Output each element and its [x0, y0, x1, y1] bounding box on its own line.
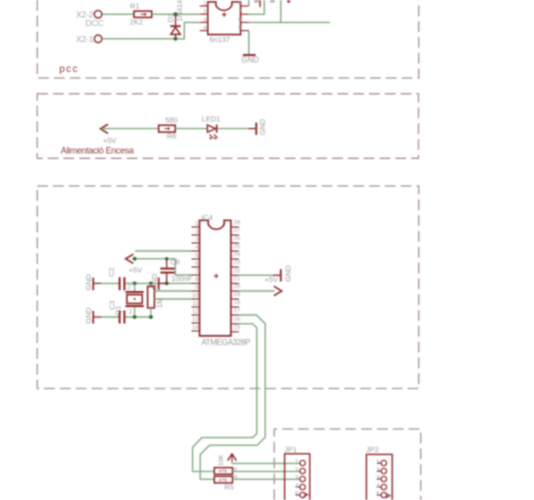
- svg-text:470: 470: [219, 469, 228, 474]
- node junction bottom of D2: [174, 37, 178, 41]
- ground symbol at C6: [150, 274, 167, 290]
- wire pin16 down long: [193, 324, 257, 472]
- supply +5V arrow left of IC4: [126, 254, 142, 274]
- svg-text:6: 6: [195, 261, 198, 267]
- svg-text:4: 4: [195, 245, 199, 251]
- svg-text:28: 28: [234, 220, 240, 226]
- resistor R 1M: [148, 283, 164, 317]
- svg-text:470: 470: [219, 477, 228, 482]
- capacitor C6 100nF: [160, 258, 192, 284]
- svg-text:5: 5: [295, 491, 299, 498]
- capacitor C3: [108, 301, 126, 324]
- supply +5V arrow left: [100, 124, 116, 145]
- svg-text:9: 9: [195, 285, 198, 291]
- svg-text:GND: GND: [84, 307, 93, 323]
- svg-text:pcc: pcc: [59, 64, 79, 75]
- svg-text:16: 16: [234, 317, 240, 323]
- wire GND net row to pin8: [125, 282, 191, 284]
- svg-text:1: 1: [295, 459, 299, 466]
- supply +5V arrow up: [218, 454, 236, 466]
- wire R5 to JP1 pin3: [233, 478, 301, 480]
- wire X2-2 to R1: [103, 13, 134, 15]
- IC4 pin numbers left: [192, 221, 199, 331]
- svg-text:4: 4: [376, 483, 380, 490]
- svg-text:580: 580: [165, 116, 177, 125]
- wire +5V to VCC pin7: [135, 259, 192, 275]
- svg-text:K: K: [233, 466, 239, 470]
- wire C3 row to 1M bottom: [125, 316, 150, 318]
- svg-text:3: 3: [295, 475, 299, 482]
- svg-text:R1: R1: [130, 2, 139, 11]
- cropped plus remnant: [287, 0, 291, 3]
- wire crystal pin1 lead: [134, 307, 136, 317]
- svg-text:18: 18: [234, 300, 240, 306]
- svg-text:ATMEGA328P: ATMEGA328P: [201, 338, 251, 347]
- svg-text:6n137: 6n137: [210, 35, 231, 44]
- node crystal top: [133, 282, 137, 286]
- ground symbol left (upper): [84, 274, 101, 290]
- 6n137 pin stubs right: [241, 6, 249, 31]
- svg-text:23: 23: [234, 260, 240, 266]
- wire pin17 down long: [200, 315, 265, 479]
- connector X2-2: [76, 10, 103, 28]
- ground symbol left (lower): [84, 307, 101, 323]
- op-amp U1 6n137 body: [208, 2, 241, 44]
- svg-text:19: 19: [234, 292, 240, 298]
- svg-text:1: 1: [129, 308, 133, 315]
- svg-text:C3: C3: [108, 301, 117, 310]
- wire pin9 short: [154, 290, 191, 292]
- svg-text:2: 2: [376, 467, 380, 474]
- svg-text:D2: D2: [166, 13, 175, 22]
- wire crystal pin2 lead: [134, 283, 136, 291]
- wire pin7 up: [249, 0, 264, 14]
- IC IC4 body: [200, 213, 252, 347]
- svg-text:R5: R5: [224, 483, 233, 492]
- wire +5V to R6: [101, 128, 159, 130]
- svg-text:21: 21: [234, 277, 240, 283]
- wire X2-1 to corner into pin3: [103, 22, 200, 38]
- svg-text:15: 15: [234, 325, 240, 331]
- frame box pcc: [37, 0, 419, 78]
- wire pin20 to +5V: [239, 290, 275, 292]
- 6n137 pin numbers: [203, 1, 207, 32]
- svg-text:LED1: LED1: [202, 115, 221, 124]
- header JP1: [284, 445, 310, 500]
- resistor R6 580: [159, 116, 178, 141]
- svg-text:7: 7: [195, 269, 198, 275]
- svg-text:5: 5: [376, 491, 380, 498]
- svg-text:20: 20: [234, 284, 240, 290]
- diode D2 1N4148: [166, 0, 184, 39]
- IC4 pin numbers right: [234, 220, 241, 331]
- svg-text:DCC: DCC: [85, 18, 103, 28]
- svg-text:Alimentació Encesa: Alimentació Encesa: [61, 146, 134, 156]
- svg-text:2: 2: [203, 9, 206, 15]
- svg-text:8: 8: [238, 1, 241, 7]
- header JP2: [366, 445, 392, 500]
- wire pin8 up: [248, 0, 250, 6]
- svg-text:3: 3: [203, 17, 206, 23]
- wire pin6 right: [249, 21, 330, 23]
- svg-text:2K2: 2K2: [130, 18, 143, 27]
- svg-text:13: 13: [192, 317, 198, 323]
- svg-text:25: 25: [234, 244, 240, 250]
- resistor R4 upper: [214, 466, 239, 474]
- resistor R1 2K2: [130, 2, 152, 27]
- svg-text:5: 5: [195, 253, 198, 259]
- svg-text:1: 1: [195, 221, 198, 227]
- svg-text:7: 7: [238, 9, 241, 15]
- wire R1 to node: [152, 13, 200, 15]
- resistor R5 lower: [214, 474, 239, 492]
- svg-text:C2: C2: [107, 267, 116, 276]
- capacitor C2: [107, 267, 126, 290]
- svg-text:3: 3: [195, 237, 198, 243]
- svg-text:R6: R6: [167, 131, 176, 140]
- svg-text:8: 8: [195, 277, 198, 283]
- node +5V junction: [133, 257, 137, 261]
- frame box JP headers: [274, 429, 421, 500]
- LED LED1: [202, 115, 221, 139]
- svg-text:JP2: JP2: [366, 445, 379, 454]
- ground right of LED1: [248, 119, 267, 135]
- svg-text:6: 6: [238, 17, 241, 23]
- svg-text:GND: GND: [84, 274, 93, 290]
- svg-text:X2-1: X2-1: [76, 34, 94, 44]
- svg-text:3: 3: [376, 475, 380, 482]
- supply +5V arrow right: [274, 286, 282, 295]
- svg-text:+5V: +5V: [103, 136, 116, 145]
- cropped text remnant left: [254, 0, 258, 3]
- cropped text remnant right: [270, 0, 274, 3]
- svg-text:K: K: [233, 474, 239, 478]
- node C6 bottom: [165, 282, 169, 286]
- svg-text:2: 2: [127, 284, 131, 291]
- frame box Alimentacio Encesa: [37, 94, 418, 159]
- cropped component remnant red stub: [259, 0, 261, 7]
- svg-text:GND: GND: [258, 119, 267, 135]
- svg-text:5: 5: [238, 26, 241, 32]
- connector X2-1: [76, 34, 102, 44]
- frame box ATMEGA: [37, 186, 419, 389]
- svg-text:IC4: IC4: [201, 213, 213, 222]
- svg-text:+5V: +5V: [129, 266, 142, 275]
- wire vertical into pin6 net: [280, 0, 282, 22]
- svg-text:C6: C6: [170, 258, 179, 267]
- ground under 6n137: [242, 54, 260, 64]
- wire LED1 to ground: [218, 128, 249, 130]
- svg-text:2: 2: [295, 467, 299, 474]
- svg-text:24: 24: [234, 252, 241, 258]
- node junction top of D2: [174, 12, 178, 16]
- svg-text:JP1: JP1: [284, 445, 297, 454]
- wire pin10 short: [154, 298, 191, 300]
- svg-text:GND: GND: [242, 55, 260, 64]
- ground right of IC4: [273, 265, 293, 281]
- svg-text:11: 11: [192, 301, 198, 307]
- svg-text:GND: GND: [284, 265, 293, 281]
- IC4 pin stubs right: [231, 227, 239, 332]
- svg-text:+5V: +5V: [265, 275, 278, 284]
- node 1M bottom: [149, 315, 153, 319]
- svg-text:22: 22: [234, 268, 240, 274]
- crystal Q1: [114, 284, 144, 315]
- svg-text:26: 26: [234, 236, 240, 242]
- svg-text:14: 14: [192, 325, 199, 331]
- svg-text:1: 1: [376, 459, 380, 466]
- IC4 pin stubs left: [192, 227, 200, 331]
- svg-text:10: 10: [192, 293, 198, 299]
- wire GND to C2: [101, 282, 119, 284]
- svg-text:10K: 10K: [218, 454, 225, 466]
- svg-text:2: 2: [195, 229, 198, 235]
- wire R6 to LED1: [175, 128, 207, 130]
- wire +5V to JP1 pin1: [232, 462, 300, 464]
- node crystal bottom: [133, 315, 137, 319]
- 6n137 pin stubs left: [200, 6, 208, 31]
- wire pin22 to ground: [239, 274, 273, 276]
- svg-text:4: 4: [295, 483, 299, 490]
- wire pin4 long left: [135, 250, 191, 252]
- svg-text:1: 1: [203, 1, 206, 7]
- svg-text:27: 27: [234, 228, 240, 234]
- wire pin5 down to ground: [248, 31, 250, 54]
- node C6 tap: [165, 257, 168, 260]
- svg-text:1N4148: 1N4148: [175, 0, 184, 22]
- svg-text:17: 17: [234, 308, 240, 314]
- wire R4 to JP1 pin2: [233, 470, 301, 472]
- node 1M top: [149, 282, 153, 286]
- wire GND to C3: [101, 316, 119, 318]
- svg-text:100nF: 100nF: [171, 274, 192, 283]
- svg-text:12: 12: [192, 309, 198, 315]
